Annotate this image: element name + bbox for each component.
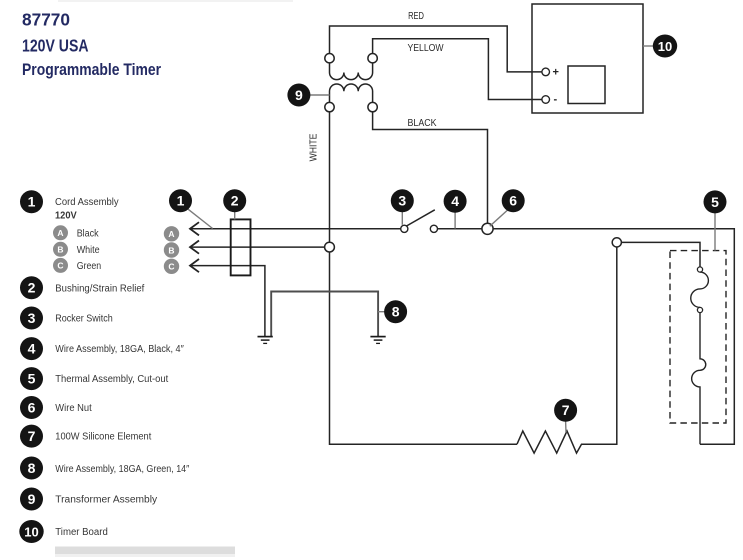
legend item 4 bullet [20, 337, 43, 360]
open junction circle near thermal [612, 238, 621, 247]
thermal lower lead and squiggle [692, 313, 706, 445]
thermal assembly dashed box [670, 251, 726, 423]
svg-text:B: B [168, 245, 174, 255]
svg-text:87770: 87770 [22, 10, 70, 30]
legend item 2 bullet [20, 276, 43, 299]
svg-text:Thermal Assembly, Cut-out: Thermal Assembly, Cut-out [55, 374, 168, 385]
ground 2 [370, 337, 385, 344]
wire from nut to right edge down to thermal return [493, 229, 734, 444]
svg-text:10: 10 [658, 39, 672, 54]
svg-text:100W Silicone Element: 100W Silicone Element [55, 432, 151, 443]
svg-text:6: 6 [28, 400, 36, 416]
svg-text:10: 10 [24, 525, 38, 540]
callout stem 5 [714, 213, 716, 251]
callout 1 [169, 189, 192, 212]
callout stem 7 [565, 421, 567, 432]
svg-text:A: A [57, 228, 63, 238]
svg-text:1: 1 [28, 194, 36, 210]
svg-text:Green: Green [77, 261, 102, 272]
svg-text:8: 8 [392, 304, 400, 320]
wire row C from arrow to ground 1 [190, 266, 265, 337]
element E7 zigzag 100W silicone element [517, 431, 617, 453]
svg-text:4: 4 [451, 193, 459, 209]
legend item 10 bullet [19, 520, 43, 543]
svg-text:RED: RED [408, 11, 424, 22]
svg-text:C: C [168, 262, 174, 272]
svg-text:7: 7 [562, 402, 570, 418]
callout stem 9 [310, 94, 329, 96]
callout 4 [444, 190, 467, 213]
svg-text:Transformer Assembly: Transformer Assembly [55, 495, 157, 506]
wire row B from arrow to junction [190, 246, 325, 248]
callout 9 [287, 84, 310, 107]
callout stem 6 [490, 210, 508, 226]
callout stem 8 [378, 311, 385, 313]
timer board U10 box [532, 4, 643, 113]
svg-text:WHITE: WHITE [309, 133, 320, 161]
svg-text:120V USA: 120V USA [22, 35, 89, 55]
transformer terminal top-left [325, 54, 334, 63]
wire YELLOW from transformer to timer board - terminal [373, 39, 542, 100]
svg-text:YELLOW: YELLOW [408, 43, 445, 54]
callout stem 4 [454, 212, 456, 228]
legend item 9 bullet [20, 488, 43, 511]
svg-text:5: 5 [711, 194, 719, 210]
transformer U9 secondary coil (top) [330, 63, 373, 80]
arrowhead C [190, 259, 199, 272]
svg-text:Wire Assembly, 18GA, Green, 14: Wire Assembly, 18GA, Green, 14″ [55, 464, 189, 475]
legend C bullet [53, 258, 68, 273]
transformer terminal bottom-left [325, 102, 334, 111]
legend item 3 bullet [20, 307, 43, 330]
svg-text:Programmable Timer: Programmable Timer [22, 60, 161, 79]
svg-text:8: 8 [28, 460, 36, 476]
svg-text:2: 2 [231, 193, 239, 209]
arrowhead B [190, 241, 199, 254]
wire nut circle [482, 223, 493, 234]
svg-text:Timer Board: Timer Board [55, 527, 108, 538]
svg-text:3: 3 [398, 193, 406, 209]
svg-text:Black: Black [77, 228, 100, 239]
wire from junction circle down to element [582, 247, 617, 444]
svg-text:7: 7 [28, 428, 36, 444]
svg-text:2: 2 [28, 280, 36, 296]
svg-text:9: 9 [28, 491, 36, 507]
legend item 5 bullet [20, 367, 43, 390]
callout 2 [223, 189, 246, 212]
wire row A from arrow to switch [190, 228, 401, 230]
svg-text:BLACK: BLACK [408, 118, 437, 129]
bushing/strain relief rectangle [231, 219, 251, 275]
callout 10 [653, 35, 677, 58]
svg-text:C: C [57, 261, 63, 271]
svg-text:B: B [57, 245, 63, 255]
legend item 8 bullet [20, 457, 43, 480]
svg-text:-: - [554, 94, 558, 106]
svg-text:Cord Assembly: Cord Assembly [55, 197, 119, 208]
svg-text:5: 5 [28, 371, 36, 387]
scan artifact top edge [58, 0, 293, 2]
svg-text:Wire Nut: Wire Nut [55, 403, 92, 414]
legend item 6 bullet [20, 396, 43, 419]
rocker switch S3 left contact [401, 225, 408, 232]
junction circle on B wire (white wire junction) [325, 242, 335, 252]
svg-text:Bushing/Strain Relief: Bushing/Strain Relief [55, 283, 144, 294]
wire from junction circle to thermal top [621, 242, 700, 267]
callout 8 [384, 300, 407, 323]
svg-text:6: 6 [509, 193, 517, 209]
svg-text:120V: 120V [55, 210, 77, 221]
transformer U9 primary coil (bottom) [330, 84, 373, 102]
timer board - terminal [542, 96, 550, 104]
legend item 7 bullet [20, 425, 43, 448]
svg-text:White: White [77, 245, 100, 256]
svg-text:1: 1 [177, 193, 185, 209]
legend B bullet [53, 242, 68, 257]
thermal contact circle lower [697, 307, 702, 312]
svg-text:Rocker Switch: Rocker Switch [55, 314, 113, 325]
rocker switch lever [407, 210, 435, 226]
callout 3 [391, 189, 414, 212]
callout 7 [554, 399, 577, 422]
wire assembly 4 segment from switch to nut [438, 228, 483, 230]
green wire assembly 8 loop [271, 292, 378, 337]
svg-text:Wire Assembly, 18GA, Black, 4″: Wire Assembly, 18GA, Black, 4″ [55, 344, 184, 355]
callout 6 [502, 189, 525, 212]
wire BLACK from transformer to wire nut [373, 112, 488, 229]
scan artifact bottom-left gray bar [55, 547, 235, 555]
thermal S-curve upper [691, 272, 709, 307]
legend A bullet [53, 225, 68, 240]
svg-text:+: + [553, 67, 559, 79]
callout stem 10 [643, 45, 654, 47]
thermal contact circle top [697, 267, 702, 272]
node A gray circle [164, 226, 179, 241]
svg-text:A: A [168, 229, 174, 239]
wire RED top from transformer to timer board + terminal [330, 26, 542, 72]
timer board + terminal [542, 68, 550, 76]
rocker switch right contact [430, 225, 437, 232]
callout stem 2 [234, 212, 236, 219]
callout stem 1 [188, 209, 213, 229]
node C gray circle [164, 259, 179, 274]
svg-text:4: 4 [28, 341, 36, 357]
svg-text:9: 9 [295, 87, 303, 103]
transformer terminal top-right [368, 54, 377, 63]
node B gray circle [164, 242, 179, 257]
timer board inner square [568, 66, 605, 104]
callout 5 [704, 190, 727, 213]
legend item 1 bullet [20, 190, 43, 213]
svg-text:3: 3 [28, 310, 36, 326]
callout stem 3 [401, 212, 403, 225]
wire WHITE vertical from transformer down to bottom wire [330, 112, 518, 444]
arrowhead A [190, 222, 199, 235]
transformer terminal bottom-right [368, 102, 377, 111]
ground 1 [258, 337, 273, 344]
